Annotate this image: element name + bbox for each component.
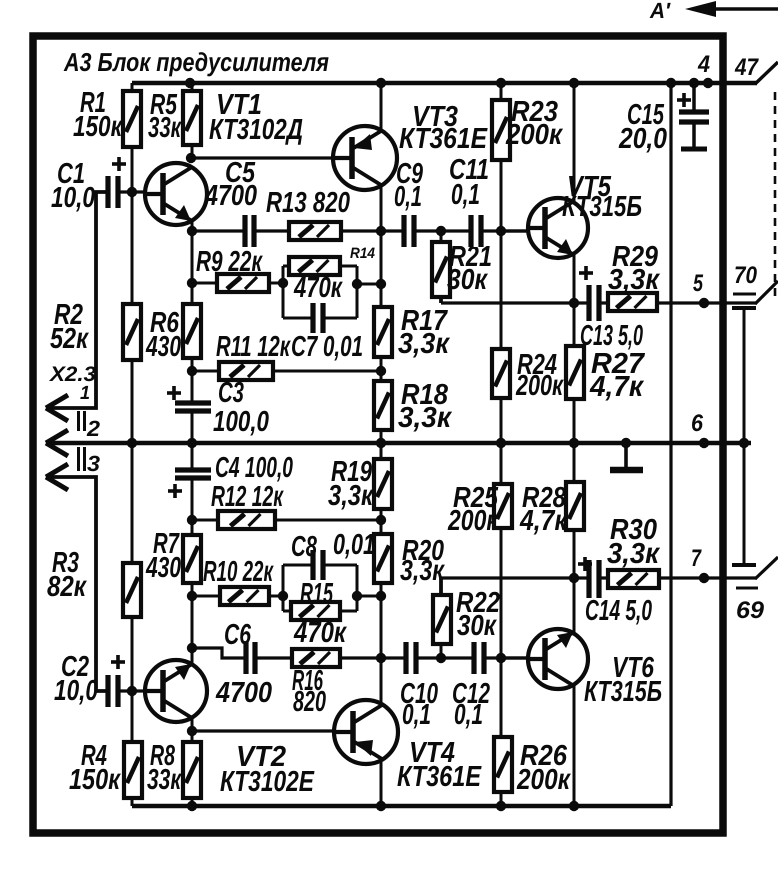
svg-text:0,1: 0,1: [394, 181, 422, 213]
capacitor C2: [108, 655, 125, 707]
svg-text:200к: 200к: [447, 505, 499, 537]
wire column R22: [440, 595, 443, 658]
capacitor C8 label: [291, 529, 375, 563]
capacitor C7 label: [291, 331, 363, 363]
capacitor C10: [406, 642, 416, 674]
resistor R27: [566, 346, 584, 399]
resistor R18: [374, 381, 392, 430]
svg-text:КТ315Б: КТ315Б: [562, 191, 642, 223]
resistor R8: [183, 742, 201, 798]
svg-text:R13 820: R13 820: [266, 187, 350, 219]
resistor R6: [183, 304, 201, 358]
svg-text:КТ361Е: КТ361Е: [397, 761, 482, 793]
svg-text:470к: 470к: [293, 272, 343, 304]
resistor R12 label: [211, 481, 284, 513]
capacitor C13 label: [580, 320, 643, 352]
resistor R25: [494, 484, 512, 528]
svg-text:3: 3: [87, 451, 100, 476]
svg-text:R10 22к: R10 22к: [203, 556, 274, 588]
svg-text:2: 2: [86, 416, 101, 441]
resistor R24 label: [515, 349, 564, 402]
svg-text:3,3к: 3,3к: [607, 538, 660, 570]
resistor R18 label: [398, 379, 452, 434]
wire terminal 69 diagonal: [755, 557, 778, 579]
svg-text:470к: 470к: [293, 617, 347, 649]
terminal 5 label: [693, 270, 703, 297]
transistor VT4 label: [397, 737, 482, 793]
resistor R30 label: [607, 514, 660, 570]
wire shield link 70-6-69: [732, 308, 756, 565]
svg-text:150к: 150к: [73, 111, 123, 143]
resistor R11: [219, 362, 273, 380]
transistor VT1: [145, 163, 207, 225]
wire C2 to VT2 base: [118, 689, 147, 692]
resistor R7: [183, 535, 201, 583]
resistor R5: [183, 91, 201, 145]
capacitor C5 label: [204, 157, 257, 212]
resistor R14 label: [293, 245, 375, 304]
wire top supply rail (node 4): [132, 78, 757, 88]
resistor R27 label: [589, 348, 646, 403]
capacitor C6: [246, 642, 255, 674]
wire output row node 7: [441, 573, 757, 595]
capacitor C4: [168, 470, 211, 498]
resistor R20 label: [400, 535, 445, 587]
resistor R4: [124, 742, 142, 798]
svg-text:R12 12к: R12 12к: [211, 481, 284, 513]
capacitor C13: [579, 266, 599, 321]
svg-text:3,3к: 3,3к: [398, 328, 450, 360]
resistor R17 label: [398, 305, 450, 360]
resistor R25 label: [447, 482, 499, 537]
svg-text:47: 47: [734, 54, 759, 81]
wire output row node 5: [441, 297, 757, 308]
capacitor C1: [108, 157, 126, 208]
wire R11 row: [192, 370, 381, 373]
transistor VT3: [333, 126, 397, 190]
connector pin 2 arrow: [46, 416, 101, 456]
wire bottom supply rail: [132, 801, 671, 811]
resistor R28: [566, 482, 584, 530]
wire terminal 47 diagonal: [755, 62, 778, 84]
resistor R6 label: [145, 307, 181, 363]
connector contact bars: [79, 411, 85, 471]
capacitor C11: [471, 215, 481, 247]
svg-text:КТ3102Д: КТ3102Д: [209, 114, 303, 146]
transistor VT6: [528, 629, 588, 689]
resistor R16 label: [292, 665, 326, 718]
wire C1 to VT1 base: [118, 190, 147, 193]
resistor R21 label: [447, 241, 492, 296]
transistor VT2: [145, 660, 207, 722]
transistor VT2 label: [220, 741, 315, 798]
wire row C6-R16 (lower): [192, 648, 528, 663]
svg-text:C8: C8: [291, 531, 318, 563]
resistor R20: [374, 534, 392, 583]
transistor VT4: [334, 700, 398, 764]
wire column R23-R24-R25-R26: [501, 83, 527, 806]
capacitor C15 label: [618, 99, 667, 155]
svg-text:C7 0,01: C7 0,01: [291, 331, 363, 363]
svg-text:200к: 200к: [516, 764, 571, 796]
resistor R15 label: [293, 578, 347, 649]
svg-text:100,0: 100,0: [213, 406, 269, 438]
svg-text:3,3к: 3,3к: [398, 402, 452, 434]
capacitor C12 label: [452, 678, 490, 731]
resistor R19 label: [328, 456, 374, 512]
resistor R26: [494, 737, 512, 792]
terminal 7 label: [691, 545, 702, 572]
wire R14/C7 left bar: [278, 266, 288, 318]
wire R12 row: [192, 519, 381, 522]
svg-text:КТ3102Е: КТ3102Е: [220, 766, 315, 798]
svg-text:0,1: 0,1: [454, 699, 483, 731]
capacitor C9: [404, 215, 414, 247]
resistor R7 label: [145, 528, 181, 584]
terminal 47 label: [734, 54, 759, 81]
resistor R11 label: [216, 331, 291, 363]
connector pin 1 arrow: [46, 383, 90, 421]
node A′ label: [649, 0, 672, 23]
wire column VT5/VT6 collector-emitter: [573, 83, 576, 806]
transistor VT6 label: [584, 652, 662, 708]
transistor VT5: [528, 198, 588, 258]
resistor R12: [218, 511, 275, 529]
wire column R1-R2-R3-R4: [127, 83, 137, 806]
resistor R30: [608, 570, 659, 588]
capacitor C9 label: [394, 158, 423, 213]
wire R14/C7 right bar: [352, 266, 381, 318]
wire VT1 collector row to VT3 base: [191, 156, 334, 159]
svg-text:3,3к: 3,3к: [608, 264, 660, 296]
resistor R23 label: [505, 96, 563, 151]
svg-text:4,7к: 4,7к: [589, 371, 644, 403]
capacitor C12: [474, 642, 484, 674]
resistor R1 label: [73, 87, 123, 143]
svg-text:30к: 30к: [457, 610, 497, 642]
title label А3 Блок предусилителя: [63, 47, 329, 77]
transistor VT5 label: [562, 171, 642, 223]
capacitor C6 label: [215, 619, 272, 709]
svg-text:4700: 4700: [215, 677, 272, 709]
svg-text:4700: 4700: [204, 180, 257, 212]
capacitor C5: [245, 215, 254, 247]
svg-text:3,3к: 3,3к: [400, 555, 445, 587]
resistor R23: [492, 100, 510, 160]
svg-text:82к: 82к: [47, 571, 87, 603]
svg-text:R11 12к: R11 12к: [216, 331, 291, 363]
connector X2.3 label: [49, 363, 96, 386]
wire C7 row: [283, 317, 357, 320]
capacitor C14: [578, 557, 599, 598]
resistor R2: [123, 304, 141, 360]
terminal 70 label: [733, 262, 758, 294]
svg-text:430: 430: [145, 331, 181, 363]
terminal 6 label: [691, 410, 704, 437]
wire input pin3 to C2: [46, 477, 106, 691]
capacitor C3: [167, 386, 211, 411]
svg-text:R15: R15: [300, 578, 334, 610]
svg-text:10,0: 10,0: [54, 675, 98, 707]
resistor R10 label: [203, 556, 274, 588]
transistor VT3 label: [399, 101, 488, 155]
ground symbol on mid line: [610, 443, 643, 470]
svg-text:C4 100,0: C4 100,0: [215, 452, 293, 484]
wire R14 row: [283, 265, 357, 268]
svg-text:4,7к: 4,7к: [519, 505, 568, 537]
wire terminal 70 diagonal: [755, 281, 778, 304]
svg-text:А3 Блок предусилителя: А3 Блок предусилителя: [63, 47, 329, 77]
resistor R17: [374, 307, 392, 357]
resistor R14: [289, 257, 340, 275]
resistor R19: [374, 459, 392, 509]
capacitor C15: [677, 83, 709, 149]
capacitor C8: [313, 550, 323, 580]
capacitor C14 label: [585, 595, 652, 627]
terminal 4 label: [697, 51, 710, 78]
svg-text:5: 5: [693, 270, 703, 297]
wire R9 row: [192, 282, 283, 285]
svg-text:КТ315Б: КТ315Б: [584, 676, 662, 708]
svg-text:33к: 33к: [147, 764, 182, 796]
wire C8/R15 right bar: [352, 565, 381, 611]
resistor R4 label: [69, 740, 121, 796]
resistor R16: [292, 649, 340, 667]
svg-text:0,1: 0,1: [451, 179, 480, 211]
svg-text:150к: 150к: [69, 764, 121, 796]
svg-text:200к: 200к: [505, 119, 563, 151]
resistor R22: [433, 595, 451, 644]
svg-text:69: 69: [736, 597, 765, 624]
wire R15 row: [283, 610, 357, 613]
svg-text:20,0: 20,0: [618, 123, 667, 155]
capacitor C10 label: [400, 678, 438, 731]
resistor R22 label: [456, 587, 500, 642]
transistor VT1 label: [209, 89, 303, 146]
svg-text:3,3к: 3,3к: [328, 480, 374, 512]
wire row C5-R13 (upper): [191, 226, 528, 236]
wire column R21: [440, 231, 443, 297]
resistor R5 label: [148, 89, 182, 144]
resistor R10: [220, 587, 269, 605]
resistor R15: [291, 602, 340, 620]
svg-text:30к: 30к: [447, 264, 488, 296]
capacitor C2 label: [54, 651, 98, 707]
resistor R26 label: [516, 740, 571, 796]
svg-text:7: 7: [691, 545, 702, 572]
capacitor C3 label: [213, 377, 269, 438]
wire column R5 to VT1 collector node: [186, 83, 196, 163]
wire VT2 collector to R8: [187, 719, 197, 806]
capacitor C4 label: [215, 452, 293, 484]
wire inner supply feed: [669, 83, 672, 806]
resistor R13: [289, 222, 341, 240]
connector pin 3 arrow: [46, 451, 100, 490]
wire C8 row: [283, 564, 357, 567]
wire VT2 collector row to VT4 base: [192, 729, 335, 732]
capacitor C11 label: [449, 154, 489, 211]
resistor R1: [123, 91, 141, 147]
wire column VT1 emitter chain: [187, 221, 197, 663]
svg-text:0,1: 0,1: [402, 699, 431, 731]
arrow to A′: [685, 1, 778, 17]
svg-text:C13 5,0: C13 5,0: [580, 320, 643, 352]
svg-text:R9 22к: R9 22к: [196, 246, 263, 278]
resistor R3: [123, 563, 141, 617]
capacitor C1 label: [51, 158, 95, 214]
svg-text:820: 820: [293, 686, 326, 718]
svg-text:0,01: 0,01: [333, 529, 375, 561]
svg-text:R14: R14: [350, 245, 376, 262]
resistor R24: [492, 349, 510, 398]
svg-text:430: 430: [145, 552, 181, 584]
svg-text:C6: C6: [224, 619, 252, 651]
resistor R9 label: [196, 246, 263, 278]
capacitor C7: [313, 303, 323, 333]
svg-text:200к: 200к: [515, 370, 564, 402]
svg-text:33к: 33к: [148, 112, 182, 144]
resistor R8 label: [147, 740, 182, 796]
wire input pin1 to C1: [46, 192, 106, 408]
wire feedback column VT3-VT4: [376, 83, 386, 806]
sheet-cut dashed line: [774, 92, 777, 298]
svg-text:А′: А′: [649, 0, 672, 23]
svg-text:10,0: 10,0: [51, 182, 95, 214]
wire common mid line (node 6): [46, 438, 751, 448]
terminal 69 label: [736, 588, 765, 624]
svg-text:6: 6: [691, 410, 704, 437]
resistor R29 label: [608, 241, 660, 296]
wire R10 row: [192, 595, 283, 598]
svg-text:52к: 52к: [50, 323, 89, 355]
svg-text:C3: C3: [218, 377, 244, 409]
svg-text:4: 4: [697, 51, 710, 78]
wire C8/R15 left bar: [278, 565, 288, 611]
resistor R28 label: [519, 482, 568, 537]
resistor R3 label: [47, 547, 87, 603]
svg-text:C14 5,0: C14 5,0: [585, 595, 652, 627]
svg-text:КТ361Е: КТ361Е: [399, 123, 488, 155]
svg-text:70: 70: [734, 262, 758, 289]
resistor R21: [432, 242, 450, 297]
resistor R29: [608, 293, 657, 311]
resistor R2 label: [50, 299, 89, 355]
svg-text:1: 1: [80, 383, 90, 404]
resistor R9: [217, 274, 269, 292]
resistor R13 label: [266, 187, 350, 219]
